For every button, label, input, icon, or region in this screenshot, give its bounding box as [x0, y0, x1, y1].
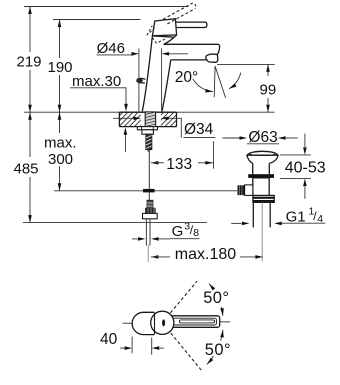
top view swivel line upper (dashed)	[170, 281, 197, 313]
dimension max.180	[151, 255, 159, 259]
dimension G1 1/4 arrows	[281, 222, 283, 224]
extension line top of handle (190 ref)	[53, 19, 141, 21]
svg-text:99: 99	[260, 82, 277, 99]
svg-text:G: G	[172, 223, 184, 240]
extension line spout outlet vertical (133 ref)	[213, 141, 215, 169]
extension lines 40 (top view)	[132, 337, 152, 355]
faucet spout top edge	[164, 44, 220, 54]
svg-text:133: 133	[166, 156, 192, 173]
faucet base extension line left (O46 ref)	[138, 49, 140, 112]
dimension O63 label and arrows	[223, 137, 240, 139]
svg-text:50°: 50°	[205, 341, 231, 359]
counter slab section	[119, 112, 176, 126]
svg-text:50°: 50°	[203, 289, 229, 307]
faucet handle block	[152, 19, 176, 36]
pop-up waste flange plug ellipse	[250, 152, 275, 156]
svg-text:190: 190	[48, 59, 73, 76]
pop-up waste flange dome	[247, 151, 278, 155]
svg-text:40-53: 40-53	[285, 159, 326, 176]
faucet spout bottom edge	[171, 59, 207, 61]
dimension G3/8 arrows	[132, 238, 138, 240]
pop-up waste neck	[253, 163, 270, 174]
pop-up waste body	[253, 178, 274, 196]
dimension 40 arrows	[120, 347, 124, 349]
dimension 190 vertical line	[59, 20, 61, 113]
pop-up waste tail pipe	[253, 202, 270, 227]
counter surface reference line	[24, 111, 275, 113]
svg-text:485: 485	[14, 161, 39, 178]
top view faucet body circle	[151, 311, 174, 334]
extension line top of faucet (219 ref)	[24, 6, 189, 8]
top view spout inner slot	[179, 320, 214, 323]
svg-text:Ø34: Ø34	[184, 121, 214, 138]
faucet body left silhouette	[142, 36, 152, 112]
dimension 133	[151, 161, 159, 165]
faucet body right shoulder	[164, 35, 177, 44]
dimension max.300 vertical line	[59, 112, 61, 191]
hose line below coupling	[148, 193, 150, 201]
faucet spout outlet (mousseur)	[206, 54, 218, 62]
svg-text:max.180: max.180	[175, 246, 236, 263]
faucet threaded shank	[145, 112, 155, 129]
extension line bottom (485 ref)	[23, 222, 207, 224]
svg-text:40: 40	[100, 331, 118, 348]
dimension 40-53 arrows	[304, 134, 306, 147]
20 deg tilted line	[215, 66, 226, 98]
20 deg reference line vertical	[213, 66, 216, 97]
faucet collar line under handle	[152, 36, 173, 37]
pop-up waste side knob	[245, 185, 253, 196]
supply hose connector nut	[145, 208, 156, 214]
faucet handle block dashed outline (raised position)	[147, 26, 152, 36]
extension line spout outlet (99 ref)	[217, 63, 275, 65]
dimension 485 vertical line	[29, 112, 31, 222]
top view swivel line lower (dashed)	[171, 333, 202, 371]
svg-text:300: 300	[48, 151, 73, 168]
pop-up rod / hose line	[148, 152, 150, 189]
extension line hose end (max.300 ref / pop-up rod)	[54, 190, 237, 192]
svg-text:219: 219	[17, 54, 42, 71]
mounting washer	[137, 127, 157, 130]
dimension 219 vertical line	[29, 7, 31, 113]
top view handle joint line	[154, 313, 156, 335]
faucet handle raised position (dashed)	[163, 4, 191, 19]
20 deg dimension arc right	[229, 73, 241, 89]
mounting nut	[142, 130, 154, 134]
top view spout beam	[168, 316, 220, 328]
50 deg lower dimension arc	[221, 330, 223, 341]
faucet handle lever arm	[175, 22, 207, 27]
dimension O34 arrows	[113, 117, 134, 119]
counter slab hatch strokes	[108, 112, 195, 128]
top view centerline left	[123, 322, 133, 324]
50 deg upper dimension arc	[221, 307, 223, 316]
faucet pop-up rod tab	[137, 78, 146, 83]
dimension Ø46 arrows	[131, 52, 139, 56]
top view centerline right	[220, 321, 230, 323]
20 deg dimension arc left	[193, 79, 213, 92]
svg-text:max.: max.	[44, 135, 77, 152]
pop-up waste coupling nut	[253, 196, 274, 203]
top view handle (lever)	[132, 312, 154, 334]
pop-up waste seal band	[248, 174, 274, 178]
faucet base extension line right (O46 ref)	[161, 49, 163, 112]
svg-text:20°: 20°	[175, 69, 198, 86]
extension lines 40-53	[280, 155, 311, 179]
svg-text:8: 8	[193, 227, 199, 239]
pop-up rod coupling	[143, 189, 155, 193]
supply hose pipe	[146, 219, 150, 246]
hose fitting	[147, 200, 153, 210]
dimension 99 vertical line	[267, 64, 269, 112]
top view lever indicator dot	[162, 319, 165, 326]
threaded mounting rod	[146, 134, 152, 149]
faucet body right silhouette	[162, 60, 171, 112]
